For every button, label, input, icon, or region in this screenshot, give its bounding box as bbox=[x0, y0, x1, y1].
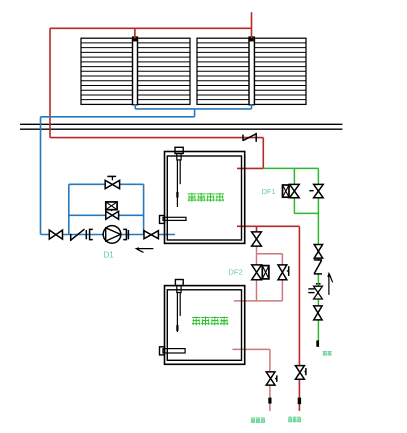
wire: green between check and union bbox=[317, 274, 319, 287]
flow arrow up bbox=[327, 272, 332, 295]
wire: blue bypass right riser bbox=[143, 184, 145, 234]
wire: red long drop right bbox=[298, 226, 300, 365]
tank T2 top sensor cap bbox=[175, 280, 183, 293]
wire: blue drop from bus bbox=[194, 109, 196, 117]
collector header H1 bbox=[133, 37, 138, 105]
tank T1 sensor probe bbox=[177, 160, 180, 207]
label drain 1 bbox=[251, 417, 265, 423]
wire: pink below valve DF2a bbox=[256, 280, 258, 301]
wire: blue stub from header H1 bbox=[134, 104, 136, 109]
wire: blue bypass top branch bbox=[69, 183, 144, 185]
wire: red stub to valve V9 bbox=[256, 226, 258, 232]
wire: blue horizontal under roof bbox=[41, 116, 195, 118]
wire: red tank T1 bottom outlet bbox=[237, 225, 299, 227]
wire: pink tank T2 drain horizontal bbox=[232, 348, 270, 350]
wire: red long drop below valve V12 bbox=[298, 379, 300, 411]
solar collector panel P3 bbox=[197, 38, 249, 104]
wire: red riser left bbox=[49, 28, 51, 137]
tank T1 outer shell bbox=[165, 152, 245, 244]
small valve V13 bbox=[314, 286, 323, 299]
valve DF2b bbox=[278, 265, 289, 280]
label DF1 bbox=[262, 187, 276, 196]
solar collector panel P1 bbox=[81, 38, 133, 104]
svg-text:D1: D1 bbox=[104, 251, 115, 260]
label feed water bbox=[323, 351, 332, 356]
wire: green to drain end bbox=[317, 320, 319, 347]
valve DF2a bbox=[252, 265, 262, 280]
wire: red hot return horizontal bbox=[50, 137, 263, 139]
pump right union bbox=[123, 229, 128, 239]
check valve V7 on hot return bbox=[243, 133, 256, 142]
wire: blue stub from header H2 bbox=[251, 104, 253, 109]
wire: pink into tank T2 top bbox=[234, 300, 283, 302]
valve V1 on pump main bbox=[49, 230, 62, 239]
label tank T2 (cold water tank) bbox=[192, 316, 229, 325]
valve V3 before tank T1 bbox=[144, 231, 158, 239]
wire: red collector supply top header bbox=[50, 27, 252, 29]
check valve V2 before pump bbox=[71, 229, 85, 241]
wire: red tank T1 top inlet bbox=[237, 167, 263, 169]
svg-text:DF1: DF1 bbox=[262, 187, 276, 196]
pump D1 bbox=[103, 226, 121, 244]
label drain 2 bbox=[288, 417, 301, 423]
tank T2 sensor probe bbox=[177, 293, 180, 333]
wire: blue downcomer left bbox=[40, 117, 42, 235]
globe valve V4 on bypass top bbox=[105, 176, 119, 188]
pump left union bbox=[86, 229, 93, 239]
wire: pink below valve DF2b bbox=[281, 280, 283, 301]
label tank T1 (hot water tank) bbox=[188, 193, 225, 202]
motor valve V5 on bypass middle bbox=[106, 202, 119, 219]
solenoid box of valve DF1a bbox=[283, 185, 290, 197]
wire: pink split header bbox=[257, 253, 283, 255]
wire: green drop to valve DF1a bbox=[293, 168, 295, 184]
tank T1 top sensor cap bbox=[175, 147, 183, 160]
flow arrow at pump outlet bbox=[134, 247, 153, 252]
red pipe end cap bbox=[298, 398, 301, 405]
union gauge taps bbox=[308, 283, 320, 293]
wire: red stub above header H2 bbox=[251, 12, 253, 38]
wire: pink drain below valve V11 bbox=[269, 385, 271, 411]
check valve V10 vertical bbox=[314, 260, 322, 274]
wire: pink below valve V9 bbox=[256, 246, 258, 254]
valve V8 on green riser bbox=[314, 245, 322, 259]
wire: blue bypass left riser bbox=[68, 184, 70, 234]
valve V11 on pink drain bbox=[266, 372, 277, 385]
pink pipe end cap bbox=[268, 398, 271, 404]
wire: blue pump main line bbox=[41, 234, 176, 236]
label D1 bbox=[104, 251, 115, 260]
solenoid box of valve DF2a bbox=[262, 266, 269, 279]
tank T1 inner shell bbox=[167, 156, 241, 240]
roof line (double) bbox=[20, 124, 342, 129]
label DF2 bbox=[229, 268, 243, 277]
wire: green riser down right bbox=[317, 198, 319, 245]
wire: green header from red drop bbox=[263, 167, 318, 169]
tank T2 inner shell bbox=[167, 290, 241, 361]
tank T2 left fitting bbox=[160, 347, 186, 355]
wire: red drop to header H1 bbox=[134, 28, 136, 38]
tank T1 left fitting bbox=[160, 216, 187, 224]
valve V14 bottom of green bbox=[314, 306, 322, 320]
valve V9 on tank T1 outlet stub bbox=[252, 232, 262, 246]
wire: red drop to tank T1 inlet bbox=[262, 138, 264, 169]
wire: green between valve V8 and check bbox=[317, 258, 319, 261]
wire: pink drop to valve DF2b bbox=[281, 254, 283, 265]
wire: green below valve DF1a bbox=[293, 198, 295, 214]
svg-text:DF2: DF2 bbox=[229, 268, 243, 277]
valve V12 on red drop bbox=[295, 366, 306, 380]
valve DF1a bbox=[290, 184, 300, 197]
wire: blue collector return bus bbox=[135, 108, 251, 110]
wire: green drop to valve DF1b bbox=[317, 168, 319, 184]
wire: blue bypass middle branch bbox=[69, 214, 144, 216]
green pipe end cap bbox=[316, 340, 319, 346]
wire: green junction horizontal bbox=[294, 212, 318, 214]
tank T2 outer shell bbox=[165, 286, 245, 365]
solar collector panel P2 bbox=[138, 38, 191, 104]
wire: pink drop to valve DF2a bbox=[256, 254, 258, 265]
valve DF1b bbox=[309, 184, 323, 197]
solar collector panel P4 bbox=[255, 38, 307, 104]
collector header H2 bbox=[249, 37, 254, 105]
wire: pink drain drop bbox=[269, 349, 271, 372]
wire: green below union bbox=[317, 299, 319, 306]
